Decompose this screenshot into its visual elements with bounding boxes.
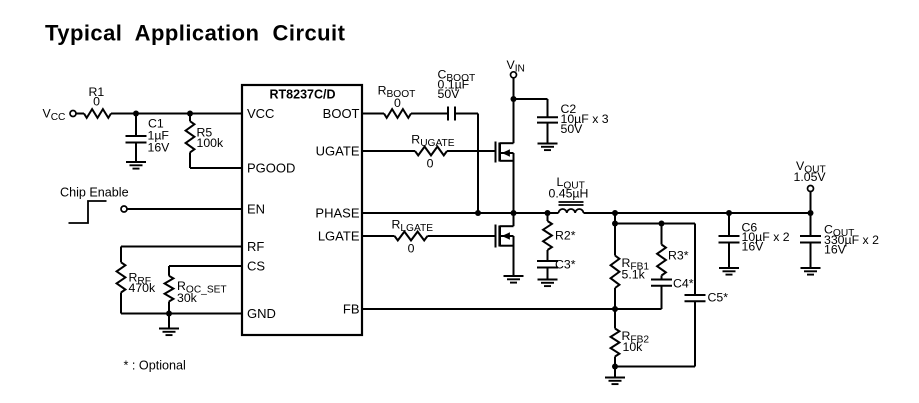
wire CS pin to ROC_SET [169, 265, 242, 267]
transistor Q2 source stub [500, 245, 514, 247]
svg-text:RLGATE: RLGATE [392, 218, 434, 235]
wire RLGATE to Q2 gate [428, 235, 496, 237]
terminal VIN [511, 72, 517, 78]
wire VOUT to divider [614, 213, 616, 224]
svg-text:0: 0 [408, 242, 415, 256]
capacitor C3* [547, 250, 549, 261]
ground below C1 [126, 161, 146, 163]
terminal EN [121, 206, 127, 212]
resistor RFB1 [614, 224, 616, 256]
svg-text:GND: GND [247, 306, 276, 321]
svg-text:16V: 16V [742, 240, 765, 254]
wire CBOOT to phase node [455, 113, 478, 115]
svg-text:EN: EN [247, 202, 265, 217]
svg-text:* : Optional: * : Optional [124, 359, 186, 373]
wire VIN to junction [513, 78, 515, 99]
transistor Q2 source rail [513, 236, 515, 276]
transistor Q2 gate bar [495, 225, 497, 248]
wire VCC terminal to R1 [76, 113, 84, 115]
transistor Q1 gate bar [495, 142, 497, 163]
ground below Q2 [504, 275, 524, 277]
svg-text:RUGATE: RUGATE [411, 132, 454, 149]
capacitor CBOOT [447, 107, 449, 121]
resistor RRF [120, 247, 122, 263]
svg-text:0: 0 [394, 96, 401, 110]
ground below COUT [801, 267, 821, 269]
svg-text:C3*: C3* [555, 258, 576, 272]
wire EN terminal to EN pin [127, 208, 242, 210]
ground below ROC_SET [168, 314, 170, 329]
transistor Q2 body stub with arrow [500, 235, 514, 237]
resistor R3* [661, 224, 663, 245]
resistor RBOOT [384, 109, 411, 118]
svg-text:Typical Application Circuit: Typical Application Circuit [45, 21, 346, 46]
svg-text:UGATE: UGATE [316, 144, 360, 159]
op-amp U1 RT8237C/D IC body [242, 85, 362, 335]
wire RF pin to RRF [121, 246, 242, 248]
resistor RFB2 [614, 309, 616, 329]
svg-text:5.1k: 5.1k [622, 268, 646, 282]
svg-text:30k: 30k [177, 291, 198, 305]
transistor Q1 drain rail [513, 99, 515, 143]
wire C5* bottom return [615, 366, 695, 368]
capacitor C6 [728, 213, 730, 236]
resistor R5 [189, 114, 191, 122]
node VOUT junction [808, 210, 814, 216]
node R5 junction [187, 111, 193, 117]
wire PHASE pin to inductor [362, 212, 559, 214]
svg-text:RT8237C/D: RT8237C/D [270, 88, 336, 102]
resistor ROC_SET [168, 266, 170, 276]
resistor R1 [84, 109, 111, 118]
svg-text:100k: 100k [197, 136, 225, 150]
wire VOUT terminal [810, 192, 812, 214]
svg-text:CS: CS [247, 259, 265, 274]
svg-text:C4*: C4* [673, 277, 694, 291]
capacitor C2 [547, 99, 549, 117]
chip enable step waveform symbol [69, 201, 107, 223]
node C6 junction [726, 210, 732, 216]
transistor Q1 channel bar [498, 143, 501, 162]
svg-text:50V: 50V [561, 122, 584, 136]
transistor Q1 source rail [513, 153, 515, 213]
wire RRF bottom to GND line [120, 293, 122, 314]
svg-text:470k: 470k [129, 281, 157, 295]
transistor Q2 channel bar [498, 226, 501, 247]
wire RUGATE to Q1 gate [447, 150, 496, 152]
node R2 snubber junction [545, 210, 551, 216]
transistor Q1 drain stub [500, 142, 514, 144]
svg-text:10k: 10k [623, 340, 644, 354]
node CBOOT-phase junction [475, 210, 481, 216]
svg-text:1.05V: 1.05V [794, 170, 827, 184]
wire GND line to GND pin [121, 313, 242, 315]
wire inductor to VOUT [584, 212, 811, 214]
wire BOOT pin to RBOOT [362, 113, 384, 115]
svg-text:FB: FB [343, 302, 360, 317]
transistor Q1 source stub [500, 160, 514, 162]
node C1 junction [133, 111, 139, 117]
svg-text:PGOOD: PGOOD [247, 161, 295, 176]
capacitor C4* [661, 276, 663, 280]
capacitor C1 [135, 114, 137, 137]
svg-text:PHASE: PHASE [315, 206, 359, 221]
svg-text:R3*: R3* [668, 249, 689, 263]
wire UGATE pin to RUGATE [362, 150, 415, 152]
transistor Q2 drain rail [513, 213, 515, 226]
node Q1/Q2 phase junction [511, 210, 517, 216]
resistor RLGATE [395, 232, 428, 241]
svg-text:16V: 16V [148, 141, 171, 155]
svg-text:VCC: VCC [43, 107, 66, 124]
node FB junction [612, 306, 618, 312]
svg-text:C5*: C5* [708, 291, 729, 305]
node VIN junction [511, 96, 517, 102]
svg-text:Chip Enable: Chip Enable [60, 186, 129, 200]
ground below C2 [538, 143, 558, 145]
svg-text:0.45µH: 0.45µH [549, 187, 589, 201]
svg-text:0: 0 [427, 157, 434, 171]
inductor LOUT [559, 201, 584, 203]
wire R1 to VCC pin [111, 113, 242, 115]
terminal VCC [70, 111, 76, 117]
wire VIN junction to C2 [514, 98, 548, 100]
node GND junction [166, 311, 172, 317]
node FB divider top junction [612, 210, 618, 216]
capacitor C5* [694, 224, 696, 295]
svg-text:LGATE: LGATE [318, 229, 360, 244]
svg-text:0: 0 [93, 95, 100, 109]
transistor Q1 body stub with arrow [500, 152, 514, 154]
terminal VOUT [808, 186, 814, 192]
ground below C3* [538, 279, 558, 281]
svg-text:R2*: R2* [555, 229, 576, 243]
node R3 branch junction [659, 221, 665, 227]
svg-text:VCC: VCC [247, 106, 274, 121]
ground below C6 [719, 267, 739, 269]
resistor R2* [547, 213, 549, 221]
wire divider branch [615, 223, 695, 225]
svg-text:50V: 50V [438, 87, 461, 101]
transistor Q2 drain stub [500, 225, 514, 227]
wire FB pin to divider [362, 308, 662, 310]
capacitor COUT [810, 213, 812, 236]
wire R5 to PGOOD [189, 152, 191, 168]
resistor RUGATE [415, 147, 447, 156]
node divider ground junction [612, 364, 618, 370]
svg-text:RF: RF [247, 239, 264, 254]
wire LGATE pin to RLGATE [362, 235, 395, 237]
ground below RFB2 [614, 367, 616, 378]
wire RBOOT to CBOOT [411, 113, 448, 115]
svg-text:16V: 16V [824, 243, 847, 257]
svg-text:BOOT: BOOT [323, 106, 360, 121]
